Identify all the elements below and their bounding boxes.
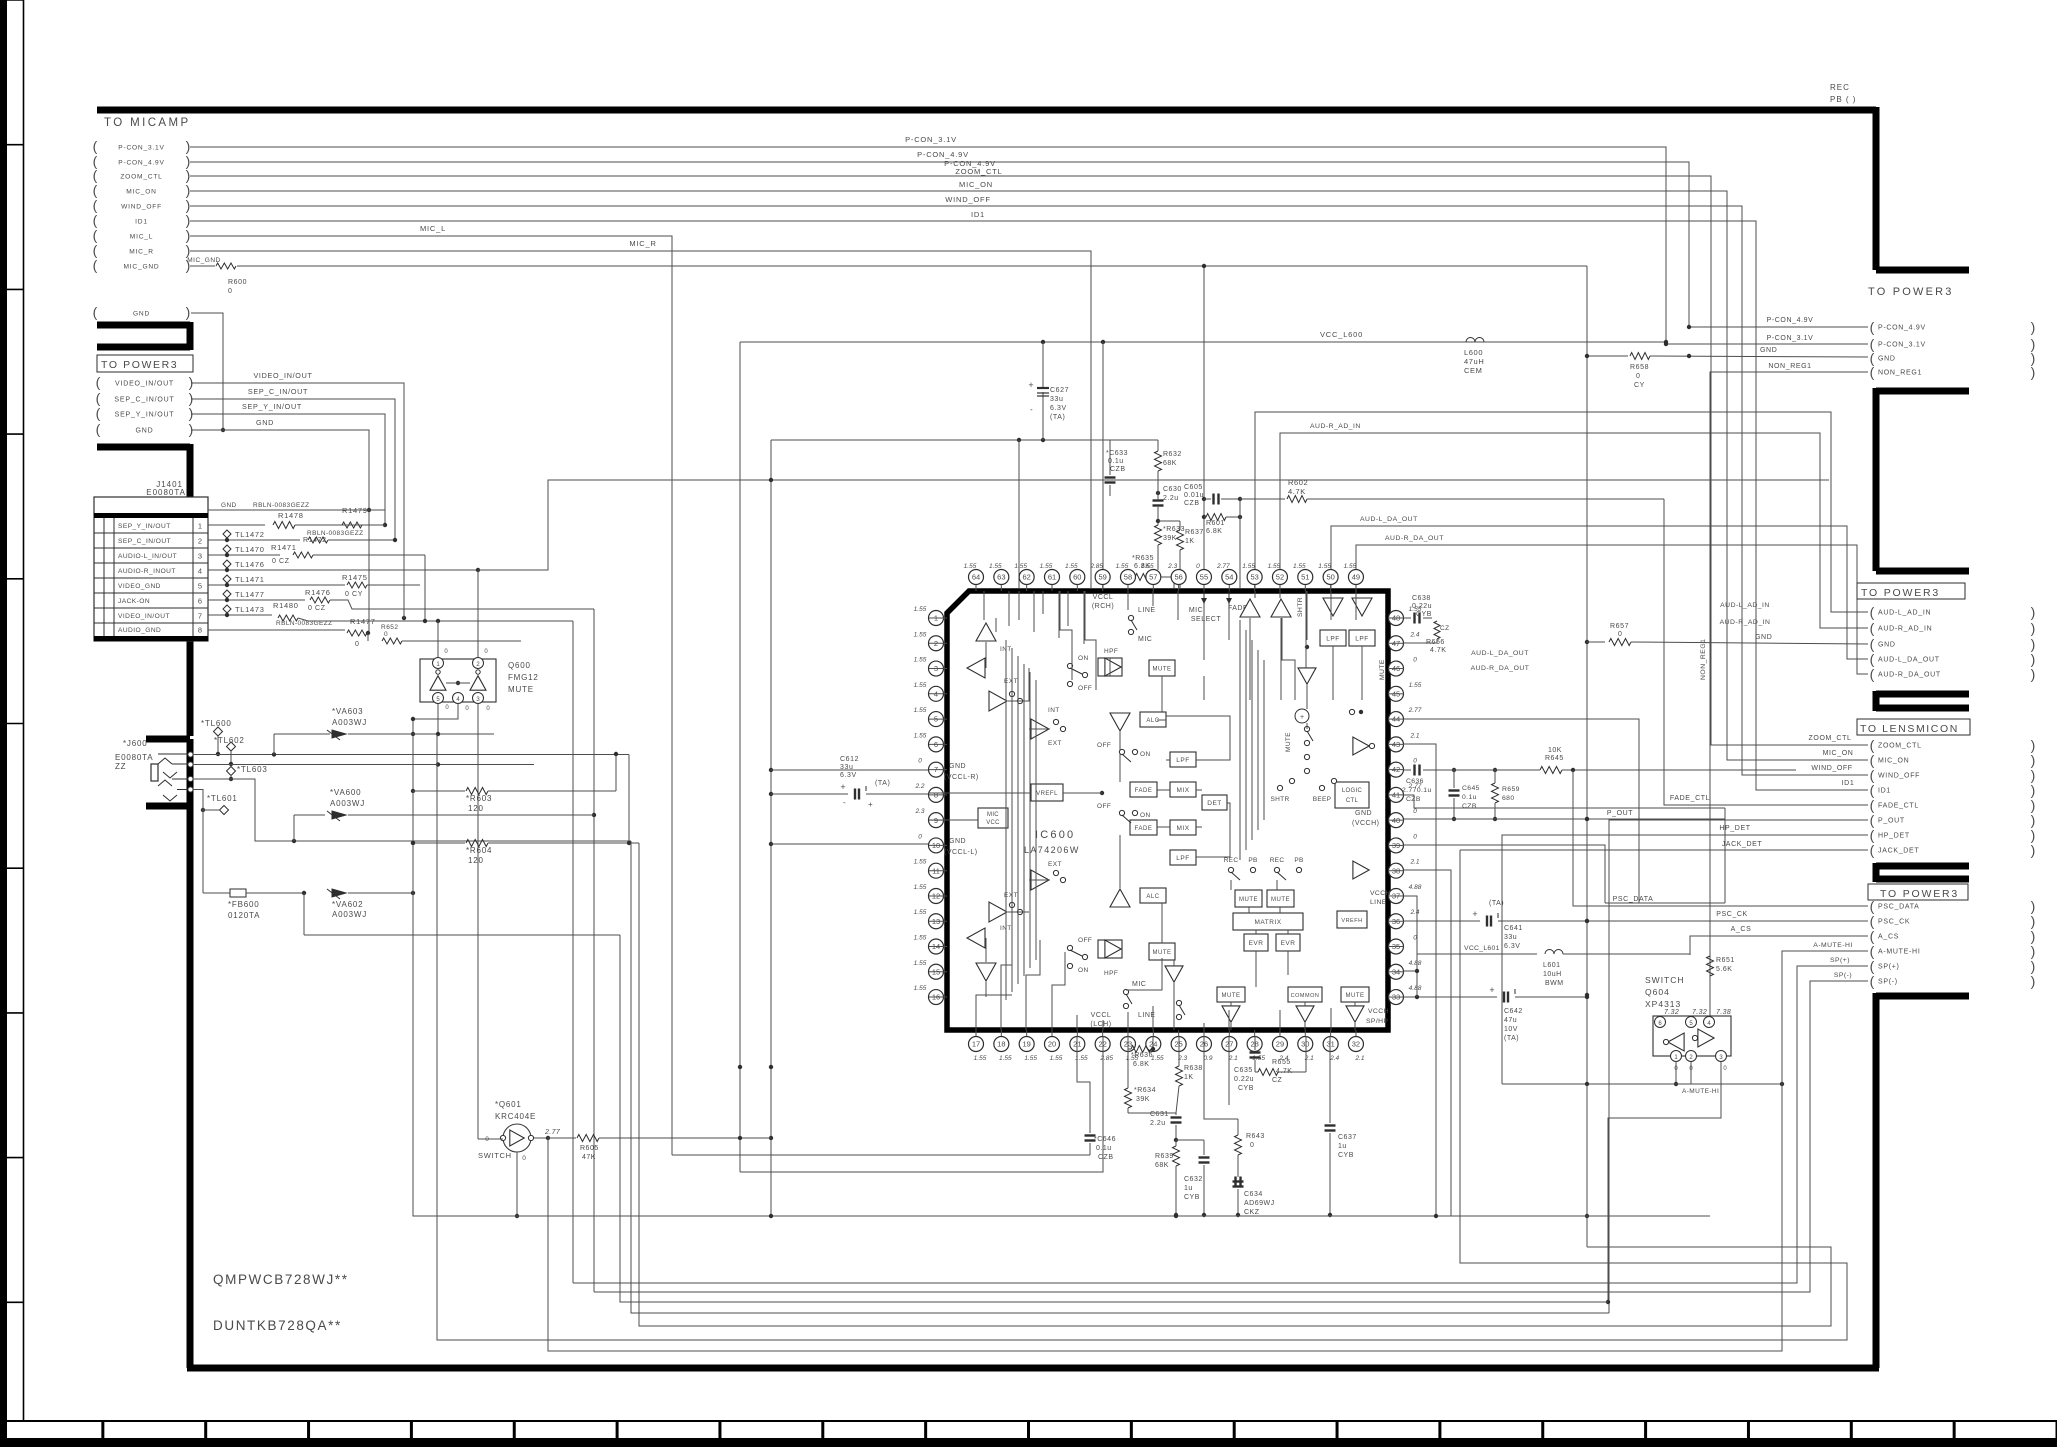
svg-text:+: +: [1028, 380, 1033, 390]
wire MIC_L: [190, 236, 672, 1155]
wire pin38: [1404, 870, 1451, 1216]
svg-text:P-CON_3.1V: P-CON_3.1V: [905, 135, 957, 144]
IC600 VREFL box: [1031, 784, 1063, 801]
svg-text:WIND_OFF: WIND_OFF: [945, 195, 991, 204]
svg-text:AUDIO_GND: AUDIO_GND: [118, 627, 161, 634]
wire SEP_Y_IN/OUT: [191, 414, 385, 510]
svg-text:R601: R601: [1206, 520, 1225, 527]
wire P_OUT: [1609, 820, 1868, 1313]
svg-text:): ): [189, 421, 194, 437]
svg-text:WIND_OFF: WIND_OFF: [121, 204, 162, 211]
svg-text:1.55: 1.55: [1050, 1055, 1063, 1062]
svg-text:64: 64: [972, 573, 980, 582]
svg-text:SP/HP: SP/HP: [1366, 1018, 1388, 1025]
svg-text:IC600: IC600: [1035, 829, 1075, 841]
svg-text:RBLN-0083GEZZ: RBLN-0083GEZZ: [253, 502, 310, 509]
svg-text:(VCCH): (VCCH): [1352, 820, 1380, 827]
svg-text:4.88: 4.88: [1409, 884, 1422, 891]
svg-text:AUD-L_AD_IN: AUD-L_AD_IN: [1878, 610, 1931, 617]
svg-text:0 CZ: 0 CZ: [272, 558, 290, 565]
svg-text:(TA): (TA): [1504, 1035, 1519, 1042]
svg-text:(: (: [1870, 767, 1875, 783]
varistor VA600: [294, 814, 325, 816]
svg-text:SP(+): SP(+): [1830, 957, 1850, 964]
svg-text:(: (: [1870, 636, 1875, 652]
svg-text:(TA): (TA): [1050, 414, 1066, 421]
svg-text:MIC_ON: MIC_ON: [959, 180, 993, 189]
svg-text:49: 49: [1352, 573, 1360, 582]
capacitor C627: [1042, 342, 1044, 440]
svg-text:R632: R632: [1163, 451, 1182, 458]
svg-text:47u: 47u: [1504, 1017, 1517, 1024]
svg-text:10uH: 10uH: [1543, 971, 1562, 978]
svg-text:0: 0: [1636, 373, 1641, 380]
svg-text:*R603: *R603: [466, 794, 492, 803]
svg-text:+: +: [840, 782, 845, 792]
IC600 EVR boxes: [1244, 934, 1268, 951]
svg-text:*TL603: *TL603: [237, 765, 268, 774]
svg-text:62: 62: [1022, 573, 1030, 582]
wire bottom bus 3: [573, 966, 1868, 1283]
svg-text:ON: ON: [1078, 967, 1089, 974]
svg-text:A-MUTE-HI: A-MUTE-HI: [1682, 1088, 1719, 1095]
svg-text:33u: 33u: [1050, 396, 1063, 403]
svg-text:GND: GND: [1878, 356, 1896, 363]
svg-text:6: 6: [198, 596, 202, 605]
svg-text:(: (: [93, 227, 98, 243]
IC600 pin 29: [1272, 1037, 1287, 1052]
svg-text:CYB: CYB: [1338, 1152, 1354, 1159]
svg-text:C638: C638: [1412, 595, 1431, 602]
svg-text:SELECT: SELECT: [1191, 616, 1221, 623]
svg-text:PSC_CK: PSC_CK: [1716, 911, 1748, 918]
wire right mid connections: [1605, 902, 1725, 904]
resistor R600: [190, 265, 215, 267]
svg-text:1K: 1K: [1185, 538, 1195, 545]
svg-text:R658: R658: [1630, 364, 1649, 371]
wire AUD_L_DA_OUT: [1331, 526, 1868, 659]
svg-text:20: 20: [1048, 1040, 1056, 1049]
IC600 pin 57: [1146, 570, 1161, 585]
svg-text:1.55: 1.55: [974, 1055, 987, 1062]
svg-text:(: (: [1870, 958, 1875, 974]
svg-text:1.55: 1.55: [914, 631, 927, 638]
svg-text:): ): [2031, 898, 2036, 914]
svg-text:(LCH): (LCH): [1090, 1021, 1111, 1028]
IC600 FADE MIX row1: [1130, 782, 1157, 797]
svg-text:P-CON_4.9V: P-CON_4.9V: [1767, 317, 1814, 324]
IC600 pin 48: [1389, 611, 1404, 626]
svg-text:1.55: 1.55: [1141, 563, 1154, 570]
IC600 pin 26: [1196, 1037, 1211, 1052]
svg-text:C642: C642: [1504, 1008, 1523, 1015]
svg-text:47K: 47K: [582, 1154, 596, 1161]
IC600 pin 30: [1298, 1037, 1313, 1052]
svg-text:TO LENSMICON: TO LENSMICON: [1860, 723, 1959, 735]
svg-text:*J600: *J600: [123, 739, 147, 748]
svg-text:2.1: 2.1: [1409, 732, 1419, 739]
IC600 pin 42: [1389, 762, 1404, 777]
IC600 pin 25: [1171, 1037, 1186, 1052]
wire WIND_OFF: [190, 206, 1868, 775]
IC600 bottom triangles: [1222, 1006, 1240, 1022]
svg-text:(: (: [93, 167, 98, 183]
wire pin39: [1404, 845, 1605, 903]
svg-text:): ): [186, 182, 191, 198]
svg-text:CKZ: CKZ: [1244, 1209, 1260, 1216]
svg-text:P-CON_4.9V: P-CON_4.9V: [1878, 325, 1926, 332]
svg-text:1.55: 1.55: [914, 682, 927, 689]
svg-text:MIC: MIC: [987, 812, 999, 818]
svg-text:TL1476: TL1476: [235, 560, 265, 569]
svg-text:1.55: 1.55: [1065, 563, 1078, 570]
IC600 LOGIC CTL box: [1335, 782, 1369, 808]
svg-text:*FB600: *FB600: [228, 900, 259, 909]
board border right segment 5: [1876, 993, 1969, 1368]
IC600 pin 37: [1389, 888, 1404, 903]
svg-text:39K: 39K: [1163, 535, 1177, 542]
svg-text:INT: INT: [1048, 707, 1060, 714]
svg-text:3: 3: [198, 551, 202, 560]
wire AUD_R_AD_IN: [1280, 433, 1868, 628]
svg-text:R638: R638: [1184, 1065, 1203, 1072]
svg-text:1.55: 1.55: [914, 909, 927, 916]
varistor VA603: [274, 733, 330, 735]
svg-text:AD69WJ: AD69WJ: [1244, 1200, 1275, 1207]
svg-text:MIC_L: MIC_L: [130, 234, 153, 241]
svg-text:2.2: 2.2: [914, 783, 924, 790]
svg-text:(: (: [1870, 752, 1875, 768]
svg-text:2.1: 2.1: [1354, 1055, 1364, 1062]
svg-text:55: 55: [1200, 573, 1208, 582]
svg-text:C630: C630: [1163, 486, 1182, 493]
svg-text:VIDEO_IN/OUT: VIDEO_IN/OUT: [115, 381, 174, 388]
svg-text:1.55: 1.55: [914, 657, 927, 664]
svg-text:HP_DET: HP_DET: [1878, 833, 1910, 840]
svg-text:1.55: 1.55: [1344, 563, 1357, 570]
wire MIC_R: [190, 251, 1091, 588]
svg-text:): ): [2031, 651, 2036, 667]
svg-text:*C646: *C646: [1094, 1136, 1116, 1143]
label box TO POWER3 right 3: [1868, 884, 1968, 900]
svg-text:7.32: 7.32: [1664, 1009, 1679, 1016]
wire x1103 down to IC: [1102, 342, 1104, 588]
svg-text:MIC_GND: MIC_GND: [123, 264, 159, 271]
svg-text:C637: C637: [1338, 1134, 1357, 1141]
svg-text:AUD-R_DA_OUT: AUD-R_DA_OUT: [1471, 665, 1530, 672]
svg-text:OFF: OFF: [1078, 685, 1092, 692]
wire HP_DET: [1502, 835, 1868, 1084]
resistor R656: [1423, 617, 1432, 619]
svg-text:1.55: 1.55: [999, 1055, 1012, 1062]
svg-text:SHTR: SHTR: [1271, 796, 1290, 803]
capacitor C630: [1156, 491, 1160, 495]
svg-text:(: (: [96, 390, 101, 406]
IC600 VREFH box: [1337, 911, 1367, 928]
svg-text:0: 0: [1250, 1142, 1254, 1149]
svg-text:2.77: 2.77: [1408, 707, 1422, 714]
svg-text:4.88: 4.88: [1409, 985, 1422, 992]
IC600 HPF top: [1098, 658, 1122, 676]
board border right segment 4: [1876, 863, 1969, 882]
wire jack contact 2: [193, 764, 534, 766]
svg-text:ID1: ID1: [135, 219, 148, 226]
wires Q600: [437, 621, 439, 657]
svg-text:): ): [2031, 973, 2036, 989]
svg-text:GND: GND: [1355, 810, 1372, 817]
board border left GND notch: [97, 322, 190, 350]
wire x1019 down to IC: [1018, 440, 1020, 588]
svg-text:2.77: 2.77: [544, 1129, 561, 1136]
IC600 FADE MIX row2: [1130, 820, 1157, 835]
svg-text:1.55: 1.55: [914, 606, 927, 613]
svg-text:(RCH): (RCH): [1092, 603, 1114, 610]
svg-text:KRC404E: KRC404E: [495, 1112, 536, 1121]
label box TO POWER3 (left): [97, 355, 193, 372]
svg-text:51: 51: [1301, 573, 1309, 582]
board border right segment 2: [1876, 388, 1969, 571]
svg-text:): ): [2031, 319, 2036, 335]
svg-text:1.55: 1.55: [1318, 563, 1331, 570]
wire jack contact 1: [193, 754, 629, 756]
svg-text:AUDIO-R_INOUT: AUDIO-R_INOUT: [118, 568, 176, 575]
capacitor C637: [1325, 1124, 1336, 1126]
IC600 left triangles ch R: [976, 623, 996, 641]
svg-text:Q600: Q600: [508, 661, 531, 670]
board border right segment 1: [1876, 107, 1969, 270]
resistor R639: [1173, 1146, 1180, 1166]
svg-text:0: 0: [522, 1155, 526, 1162]
IC600 bottom MUTE COMMON MUTE boxes: [1217, 987, 1245, 1002]
svg-text:P-CON_4.9V: P-CON_4.9V: [917, 150, 969, 159]
svg-text:L601: L601: [1543, 962, 1561, 969]
svg-text:(: (: [93, 304, 98, 320]
wire left bus vertical: [412, 791, 414, 893]
sheet frame inner border lines: [23, 0, 25, 1421]
IC600 internal stair wires bottom-left: [1001, 930, 1012, 1000]
svg-text:1.55: 1.55: [914, 859, 927, 866]
svg-text:(: (: [1870, 973, 1875, 989]
wire rail x1588 lower: [1586, 1084, 1588, 1247]
svg-text:VIDEO_IN/OUT: VIDEO_IN/OUT: [253, 371, 312, 380]
svg-text:R643: R643: [1246, 1133, 1265, 1140]
svg-text:GND: GND: [1755, 634, 1772, 641]
wire row8 audio gnd + resistor R1477: [208, 629, 345, 631]
svg-text:0: 0: [1618, 631, 1623, 638]
svg-text:57: 57: [1149, 573, 1157, 582]
svg-text:58: 58: [1124, 573, 1132, 582]
svg-text:(: (: [96, 421, 101, 437]
svg-text:VCCH: VCCH: [1370, 890, 1391, 897]
IC600 amp triangle right 38: [1353, 861, 1369, 879]
svg-text:19: 19: [1022, 1040, 1030, 1049]
sheet frame bottom ticks: [0, 1421, 2, 1438]
svg-text:R639: R639: [1155, 1153, 1174, 1160]
svg-text:PB: PB: [1294, 857, 1303, 864]
IC600 pin 64: [969, 570, 984, 585]
svg-text:2.2u: 2.2u: [1163, 495, 1179, 502]
svg-text:R1478: R1478: [278, 511, 304, 520]
svg-text:JACK-ON: JACK-ON: [118, 598, 150, 605]
svg-text:R645: R645: [1545, 755, 1564, 762]
IC600 pin 41: [1389, 787, 1404, 802]
svg-text:TL1470: TL1470: [235, 545, 265, 554]
svg-text:): ): [2031, 797, 2036, 813]
wires Q604: [1675, 1062, 1677, 1084]
svg-text:2.3: 2.3: [914, 808, 924, 815]
svg-text:LPF: LPF: [1326, 636, 1339, 643]
svg-text:(: (: [1870, 651, 1875, 667]
IC600 left triangles ch L: [1031, 870, 1049, 890]
svg-text:P-CON_4.9V: P-CON_4.9V: [118, 160, 164, 167]
svg-text:P-CON_3.1V: P-CON_3.1V: [118, 145, 164, 152]
wire pin41: [1404, 795, 1725, 808]
label box TO LENSMICON: [1857, 719, 1970, 735]
svg-text:BWM: BWM: [1545, 980, 1564, 987]
board border jack notch bottom: [146, 803, 190, 810]
svg-text:R605: R605: [580, 1145, 599, 1152]
inductor L601: [1545, 950, 1563, 955]
svg-text:OFF: OFF: [1097, 803, 1111, 810]
IC600 pin 16: [929, 990, 944, 1005]
svg-text:*C633: *C633: [1106, 450, 1128, 457]
svg-text:(: (: [93, 212, 98, 228]
svg-text:GND: GND: [1878, 642, 1896, 649]
svg-text:0.1u: 0.1u: [1096, 1145, 1112, 1152]
svg-text:1.55: 1.55: [1116, 563, 1129, 570]
IC600 pin 28: [1247, 1037, 1262, 1052]
resistor R602: [1240, 498, 1285, 500]
svg-text:HPF: HPF: [1104, 970, 1118, 977]
test point TL600: [214, 727, 223, 736]
svg-text:ZOOM_CTL: ZOOM_CTL: [1809, 735, 1852, 742]
IC600 LPF mid: [1170, 752, 1196, 767]
wire jack contact 3: [193, 779, 631, 841]
IC600 pin 11: [929, 863, 944, 878]
svg-text:0: 0: [355, 641, 360, 648]
svg-text:NON_REG1: NON_REG1: [1768, 363, 1811, 370]
IC600 pin 50: [1323, 570, 1338, 585]
svg-text:MUTE: MUTE: [1346, 993, 1365, 999]
resistor R636: [1131, 1046, 1151, 1053]
svg-text:TO POWER3: TO POWER3: [1880, 888, 1959, 900]
svg-text:MUTE: MUTE: [1222, 993, 1241, 999]
resistor R658: [1587, 355, 1628, 357]
svg-text:GND: GND: [221, 502, 237, 509]
wire VCC_L600 horizontal: [740, 341, 1666, 343]
wire ID1: [190, 221, 1868, 790]
svg-text:1.55: 1.55: [1268, 563, 1281, 570]
IC U600 LA74206W outline: [947, 591, 1388, 1030]
svg-text:MUTE: MUTE: [1153, 950, 1172, 956]
svg-text:1.55: 1.55: [1409, 682, 1422, 689]
IC600 LPF boxes top right: [1320, 630, 1346, 646]
svg-text:CY: CY: [1634, 382, 1645, 389]
svg-text:2.85: 2.85: [1099, 1055, 1113, 1062]
IC600 pin 59: [1095, 570, 1110, 585]
IC600 DET box: [1202, 795, 1227, 810]
svg-text:AUD-R_DA_OUT: AUD-R_DA_OUT: [1385, 535, 1444, 542]
svg-text:ID1: ID1: [1878, 788, 1891, 795]
svg-text:EXT: EXT: [1048, 740, 1062, 747]
board border right segment 3: [1876, 691, 1969, 711]
svg-text:A003WJ: A003WJ: [330, 799, 365, 808]
IC600 pin 47: [1389, 636, 1404, 651]
label box TO POWER3 right 2: [1857, 583, 1965, 599]
svg-text:NON_REG1: NON_REG1: [1878, 370, 1922, 377]
svg-text:C612: C612: [840, 756, 859, 763]
diamond TL1471: [223, 575, 231, 583]
wires Q601: [478, 1138, 503, 1140]
svg-text:FADE: FADE: [1135, 826, 1153, 832]
svg-text:1.55: 1.55: [914, 707, 927, 714]
svg-text:): ): [186, 167, 191, 183]
svg-text:P_OUT: P_OUT: [1878, 818, 1905, 825]
svg-text:P-CON_3.1V: P-CON_3.1V: [1878, 342, 1926, 349]
svg-text:+: +: [1472, 909, 1477, 919]
svg-text:PSC_DATA: PSC_DATA: [1613, 896, 1654, 903]
svg-text:TL1472: TL1472: [235, 530, 265, 539]
IC600 pin 51: [1298, 570, 1313, 585]
svg-text:DET: DET: [1207, 800, 1222, 807]
wire pin33 C642: [1404, 996, 1497, 998]
svg-text:1.55: 1.55: [914, 960, 927, 967]
wire row6 jack-on: [208, 599, 305, 601]
IC600 pin 3: [929, 661, 944, 676]
diamond TL1473: [223, 605, 231, 613]
svg-text:PB ( ): PB ( ): [1830, 95, 1856, 104]
wire AUD_R_DA_OUT: [1356, 545, 1868, 674]
wire pin36 C641: [1404, 920, 1480, 922]
svg-text:1K: 1K: [1184, 1074, 1194, 1081]
svg-text:1.55: 1.55: [914, 935, 927, 942]
svg-text:(: (: [1870, 913, 1875, 929]
svg-text:6.3V: 6.3V: [1504, 943, 1520, 950]
svg-text:0.22u: 0.22u: [1234, 1076, 1254, 1083]
svg-text:FADE_CTL: FADE_CTL: [1670, 795, 1710, 802]
svg-text:59: 59: [1098, 573, 1106, 582]
resistor R659: [1492, 783, 1499, 803]
IC600 pin 12: [929, 888, 944, 903]
svg-text:4.7K: 4.7K: [1430, 647, 1446, 654]
svg-text:R637: R637: [1185, 529, 1204, 536]
svg-text:(: (: [93, 242, 98, 258]
svg-text:VCC_L601: VCC_L601: [1464, 945, 1500, 952]
svg-text:): ): [186, 212, 191, 228]
svg-text:C634: C634: [1244, 1191, 1263, 1198]
svg-text:63: 63: [997, 573, 1005, 582]
svg-text:MIC_ON: MIC_ON: [126, 189, 156, 196]
diamond TL1470: [223, 545, 231, 553]
svg-text:A003WJ: A003WJ: [332, 718, 367, 727]
IC600 pin 1: [929, 611, 944, 626]
svg-text:R1477: R1477: [350, 617, 376, 626]
svg-text:): ): [2031, 364, 2036, 380]
resistor R643: [1235, 1135, 1242, 1155]
svg-text:5: 5: [198, 581, 202, 590]
board border left lower: [187, 806, 194, 1368]
svg-text:): ): [2031, 737, 2036, 753]
svg-text:): ): [186, 242, 191, 258]
svg-text:CZB: CZB: [1184, 500, 1200, 507]
svg-text:1.55: 1.55: [914, 985, 927, 992]
svg-text:0.22u: 0.22u: [1412, 603, 1432, 610]
wire AUD_L_AD_IN: [1255, 412, 1868, 612]
svg-text:MIC_ON: MIC_ON: [1878, 758, 1909, 765]
svg-text:R602: R602: [1288, 478, 1308, 487]
svg-text:TL1473: TL1473: [235, 605, 265, 614]
wire Q601 emitter down: [516, 1152, 518, 1216]
